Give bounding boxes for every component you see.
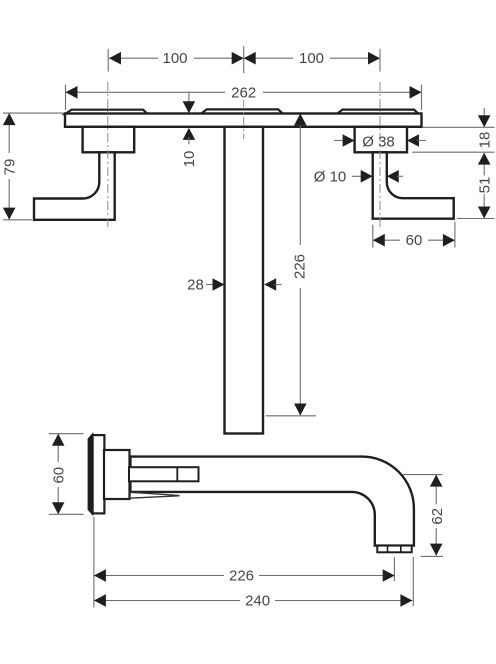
dim 38 left arrow	[334, 140, 344, 142]
svg-text:Ø 10: Ø 10	[314, 168, 347, 185]
svg-text:226: 226	[292, 254, 309, 279]
arrow 262 left	[66, 86, 78, 99]
dim 38 right arrow	[407, 134, 419, 147]
dim 226 bottom arrows	[94, 569, 106, 582]
centerline spout	[243, 100, 245, 139]
flange disc	[93, 435, 105, 513]
dim 51 lower arrow	[483, 194, 485, 206]
arrow 100-left left	[109, 52, 121, 65]
dim 79 arrows	[3, 113, 16, 125]
spout front view	[225, 127, 264, 434]
dim 60 right handle extension lines	[372, 225, 374, 248]
dim d10 left arrow	[352, 175, 362, 177]
centerline left handle	[107, 82, 109, 230]
dim 226 front lower arrow	[294, 404, 307, 416]
spigot bar divider	[176, 467, 178, 481]
dim line 262	[66, 91, 422, 93]
spout tube side view	[130, 457, 414, 546]
escutcheon right	[355, 127, 407, 153]
dim 10 plate thickness upper arrow	[188, 93, 190, 104]
dim 60 side extension lines	[49, 433, 84, 435]
escutcheon base trapezoid right	[337, 110, 419, 114]
dim 226 bottom line	[94, 575, 395, 577]
dim 240 line	[94, 600, 413, 602]
escutcheon base trapezoid center	[201, 109, 283, 114]
dim 62 arrows	[430, 475, 443, 487]
dim 240 arrows	[94, 594, 106, 607]
svg-text:240: 240	[245, 593, 270, 610]
svg-text:100: 100	[299, 50, 324, 67]
dim 60 line	[373, 239, 455, 241]
svg-text:18: 18	[476, 132, 493, 149]
svg-text:79: 79	[2, 159, 19, 176]
aerator housing	[377, 546, 411, 553]
svg-text:60: 60	[406, 232, 423, 249]
dim d10 right arrow	[387, 170, 399, 183]
extension tick spout center	[243, 46, 245, 73]
dim 62 line	[435, 475, 437, 556]
arrow 100-right left	[244, 52, 256, 65]
dim 62 extension lines	[403, 474, 443, 476]
dim 18 line and arrows	[483, 108, 485, 116]
dim 60 side arrows	[52, 434, 65, 446]
svg-text:51: 51	[476, 177, 493, 194]
svg-text:62: 62	[429, 508, 446, 525]
lever handle right	[373, 152, 454, 218]
bottom extension lines	[93, 517, 95, 608]
extension line 262 left	[65, 85, 67, 110]
dim 10 plate thickness lower arrow	[183, 128, 196, 140]
spigot bar	[129, 467, 199, 481]
extension tick right handle center	[379, 49, 381, 72]
extension line spout outlet front	[266, 415, 317, 417]
dim 226 front upper arrow	[294, 114, 307, 126]
svg-text:100: 100	[162, 50, 187, 67]
centerline right handle	[379, 82, 381, 227]
arrow 262 right	[410, 86, 422, 99]
svg-text:28: 28	[187, 277, 204, 294]
svg-text:Ø 38: Ø 38	[362, 133, 395, 150]
dim 51 upper arrow	[478, 153, 491, 165]
escutcheon base trapezoid left	[65, 110, 148, 114]
aerator tick right	[400, 547, 402, 552]
arrow 100-left right	[232, 52, 244, 65]
svg-text:60: 60	[50, 467, 67, 484]
dim line 100 right segment	[244, 57, 380, 59]
dim line 100 left segment	[109, 57, 244, 59]
aerator tick left	[387, 547, 389, 552]
dim 79 extension bottom	[3, 219, 32, 221]
arrow 100-right right	[368, 52, 380, 65]
flange chamfer face	[88, 434, 92, 514]
dim 79 line	[8, 113, 10, 220]
wedge below tube	[129, 492, 180, 495]
dim 60 side line	[57, 434, 59, 515]
svg-text:10: 10	[181, 151, 198, 168]
lever handle left	[34, 152, 115, 220]
extension tick left handle center	[107, 49, 109, 72]
extension line 262 right	[421, 85, 423, 110]
svg-text:226: 226	[229, 568, 254, 585]
svg-text:262: 262	[231, 84, 256, 101]
dim 18/51 extension lines	[412, 127, 495, 218]
wall plate	[65, 114, 422, 127]
escutcheon cylinder side	[104, 450, 130, 499]
escutcheon left	[83, 127, 135, 153]
dim 60 arrows	[373, 234, 385, 247]
dim 79 extension top	[3, 112, 64, 114]
dim 226 front view line	[299, 122, 301, 416]
